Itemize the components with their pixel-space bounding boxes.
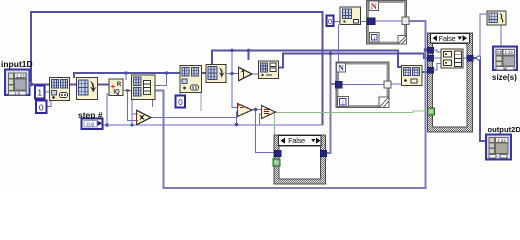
svg-text:1.23: 1.23	[505, 50, 514, 55]
svg-text:step #: step #	[78, 110, 103, 120]
svg-text:IQ: IQ	[113, 90, 120, 96]
svg-text:1 23: 1 23	[497, 138, 506, 143]
svg-text:1 0: 1 0	[14, 91, 21, 96]
svg-text:1.23: 1.23	[16, 73, 25, 78]
svg-text:0: 0	[178, 98, 183, 107]
svg-text:N: N	[371, 1, 378, 11]
svg-text:False: False	[288, 136, 305, 145]
svg-text:0: 0	[328, 17, 332, 26]
svg-text:size(s): size(s)	[492, 73, 517, 82]
svg-text:23: 23	[497, 50, 502, 55]
svg-text:N: N	[338, 64, 344, 73]
svg-text:output2D: output2D	[488, 125, 520, 134]
svg-text:False: False	[439, 34, 456, 43]
svg-text:0.6: 0.6	[86, 122, 94, 128]
svg-text:1: 1	[37, 88, 42, 98]
svg-text:0: 0	[39, 103, 44, 113]
svg-text:R: R	[117, 82, 122, 88]
svg-text:input1D: input1D	[1, 59, 33, 69]
